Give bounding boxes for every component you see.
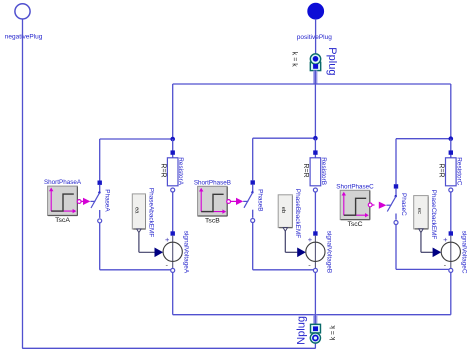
resistor ResistorC top pin: [449, 139, 453, 158]
label signalVoltageA: [183, 231, 190, 274]
wire negativePlug to Nplug (outer loop): [22, 19, 315, 348]
wire node to switch PhaseB: [252, 138, 254, 180]
svg-text:PhaseBbackEMF: PhaseBbackEMF: [294, 189, 301, 238]
label ResistorC: [455, 157, 462, 185]
resistor ResistorB top pin: [313, 138, 317, 158]
step source TscB (ShortPhaseB): [198, 186, 228, 216]
input triangle of signalVoltageA: [155, 248, 164, 258]
svg-text:ec: ec: [416, 208, 422, 214]
svg-text:R=R: R=R: [302, 163, 309, 177]
label signalVoltageC: [461, 231, 468, 274]
svg-text:TscB: TscB: [205, 218, 220, 225]
label ShortPhaseC: [336, 183, 374, 190]
switch PhaseC: [386, 184, 398, 224]
positivePlug connector: [297, 3, 332, 41]
wire bus down to phase C node: [450, 84, 452, 139]
wire bus down to phase A node: [172, 84, 174, 139]
svg-text:eb: eb: [280, 207, 286, 213]
label PhaseBbackEMF: [294, 189, 301, 238]
wire switch PhaseB bottom to source bottom: [253, 223, 314, 270]
label signalVoltageB: [325, 231, 332, 273]
label R=R (ResistorA): [159, 163, 166, 177]
boolean input triangle of switch PhaseC: [379, 202, 387, 209]
label ShortPhaseA: [44, 179, 82, 186]
svg-text:ea: ea: [134, 207, 140, 214]
svg-text:ResistorA: ResistorA: [177, 157, 184, 185]
wire node to switch PhaseA: [99, 139, 101, 181]
resistor ResistorA top pin: [171, 139, 175, 158]
wire node to switch PhaseC: [395, 139, 397, 185]
resistor ResistorA: [167, 158, 178, 186]
svg-text:positivePlug: positivePlug: [297, 34, 332, 41]
svg-text:PhaseA: PhaseA: [104, 189, 111, 212]
wire phase B top horizontal: [253, 137, 316, 139]
label ShortPhaseB: [194, 179, 231, 186]
thick plug wire above Nplug adapter: [313, 315, 317, 325]
label TscA: [55, 217, 70, 224]
wire bus down to phase B node: [314, 84, 316, 138]
expression block PhaseBbackEMF: [278, 195, 292, 228]
wire resistor to signalVoltageB: [314, 192, 316, 232]
label PhaseB: [257, 189, 264, 211]
output pin of PhaseBbackEMF: [283, 228, 287, 232]
wire phase C top horizontal: [396, 138, 451, 140]
bottom pin of signalVoltageB: [313, 268, 317, 272]
wire switch PhaseC bottom to source bottom: [396, 225, 449, 270]
boolean output pin of TscB: [227, 200, 231, 204]
svg-text:signalVoltageA: signalVoltageA: [183, 231, 190, 274]
node phase C junction dot: [449, 136, 454, 141]
switch PhaseB: [243, 180, 255, 222]
svg-text:+: +: [165, 235, 170, 244]
label R=R (ResistorC): [437, 163, 444, 177]
svg-text:+: +: [308, 235, 313, 244]
wire phase A top horizontal: [100, 138, 173, 140]
svg-text:ShortPhaseB: ShortPhaseB: [194, 179, 231, 186]
label PhaseC: [400, 193, 407, 216]
label ResistorA: [177, 157, 184, 185]
svg-text:+: +: [443, 235, 448, 244]
boolean output pin of TscC: [368, 203, 372, 207]
label Nplug: [296, 316, 308, 345]
svg-text:k = k: k = k: [330, 325, 337, 340]
svg-text:ResistorC: ResistorC: [455, 157, 462, 185]
adapter Pplug (plug to pin): [310, 54, 320, 71]
svg-text:PhaseB: PhaseB: [257, 189, 264, 211]
signal wire PhaseAbackEMF to signalVoltageA: [139, 233, 155, 253]
svg-text:k = k: k = k: [291, 52, 298, 67]
label k = k (Nplug): [330, 325, 337, 340]
resistor ResistorA bottom pin: [171, 188, 175, 192]
expression block PhaseCbackEMF: [414, 196, 429, 229]
wire resistor to signalVoltageA: [172, 192, 174, 232]
wire positivePlug to Pplug adapter: [315, 19, 317, 55]
svg-text:Pplug: Pplug: [326, 47, 338, 75]
N-side bus wire: [173, 314, 451, 316]
node phase A junction dot: [170, 137, 175, 142]
wire resistor to signalVoltageC: [450, 192, 452, 232]
svg-text:signalVoltageB: signalVoltageB: [325, 231, 332, 273]
svg-text:ResistorB: ResistorB: [320, 157, 327, 185]
signal wire PhaseCbackEMF to signalVoltageC: [421, 233, 433, 253]
wire signalVoltageC to N bus: [450, 272, 452, 314]
svg-text:-: -: [444, 260, 447, 269]
svg-text:TscC: TscC: [347, 221, 362, 228]
switch PhaseA: [90, 181, 102, 223]
svg-text:ShortPhaseC: ShortPhaseC: [336, 183, 374, 190]
svg-text:ShortPhaseA: ShortPhaseA: [44, 179, 82, 186]
step source TscC (ShortPhaseC): [340, 190, 370, 219]
thick plug wire below Pplug adapter: [313, 70, 317, 84]
resistor ResistorB bottom pin: [313, 188, 317, 192]
voltage source signalVoltageA: [163, 231, 182, 269]
svg-text:-: -: [308, 260, 311, 269]
label PhaseCbackEMF: [430, 190, 437, 240]
svg-text:TscA: TscA: [55, 217, 70, 224]
svg-text:PhaseAbackEMF: PhaseAbackEMF: [147, 188, 154, 237]
bottom pin of signalVoltageA: [171, 268, 175, 272]
boolean wire TscA to switch: [81, 200, 83, 202]
label TscC: [347, 221, 362, 228]
negativePlug connector: [5, 4, 43, 41]
resistor ResistorB: [310, 158, 321, 186]
voltage source signalVoltageB: [306, 231, 325, 269]
label PhaseA: [104, 189, 111, 212]
voltage source signalVoltageC: [441, 231, 460, 269]
svg-text:R=R: R=R: [159, 163, 166, 177]
resistor ResistorC: [446, 158, 457, 186]
wire switch PhaseA bottom to source bottom: [100, 223, 171, 270]
label ResistorB: [320, 157, 327, 185]
svg-text:R=R: R=R: [437, 163, 444, 177]
input triangle of signalVoltageC: [433, 248, 442, 258]
boolean input triangle of switch PhaseB: [236, 198, 243, 205]
wire signalVoltageA to N bus: [172, 272, 174, 314]
output pin of PhaseAbackEMF: [137, 229, 141, 233]
input triangle of signalVoltageB: [297, 248, 306, 258]
P-side bus wire: [173, 83, 451, 85]
label k = k (Pplug): [291, 52, 298, 67]
label TscB: [205, 218, 220, 225]
svg-text:negativePlug: negativePlug: [5, 33, 43, 40]
label R=R (ResistorB): [302, 163, 309, 177]
bottom pin of signalVoltageC: [449, 268, 453, 272]
expression block PhaseAbackEMF: [132, 194, 145, 229]
resistor ResistorC bottom pin: [449, 188, 453, 192]
svg-text:signalVoltageC: signalVoltageC: [461, 231, 468, 274]
output pin of PhaseCbackEMF: [419, 229, 423, 233]
step source TscA (ShortPhaseA): [48, 186, 78, 215]
node phase B junction dot: [313, 136, 318, 141]
label Pplug: [326, 47, 338, 75]
wire signalVoltageB to N bus: [314, 272, 316, 314]
boolean input triangle of switch PhaseA: [83, 198, 90, 205]
svg-text:PhaseCbackEMF: PhaseCbackEMF: [430, 190, 437, 240]
boolean wire TscB to switch: [230, 200, 236, 202]
svg-text:PhaseC: PhaseC: [400, 193, 407, 216]
adapter Nplug (pin to plug): [310, 324, 320, 343]
label PhaseAbackEMF: [147, 188, 154, 237]
svg-text:-: -: [166, 260, 169, 269]
boolean wire TscC to switch: [372, 204, 375, 206]
svg-text:Nplug: Nplug: [296, 316, 308, 345]
boolean output pin of TscA: [77, 200, 81, 204]
signal wire PhaseBbackEMF to signalVoltageB: [285, 231, 297, 252]
